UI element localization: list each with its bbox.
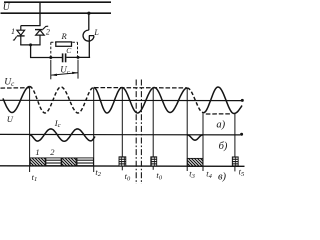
Uc level dashed left	[1, 87, 30, 89]
svg-text:Uc: Uc	[4, 78, 15, 88]
timeline axis v)	[0, 165, 245, 168]
Uc dimension extension lines	[50, 60, 52, 80]
Ic charge wave	[30, 129, 95, 141]
U wave solid right	[204, 87, 243, 114]
svg-text:U: U	[3, 3, 11, 13]
gate pulse block at first t0	[119, 157, 126, 166]
svg-text:R: R	[61, 31, 68, 41]
junction left of capacitor	[49, 56, 52, 59]
axis b)	[0, 133, 240, 136]
wire: down from pair	[30, 45, 32, 58]
marker t4	[202, 113, 204, 171]
junction right of capacitor	[77, 56, 80, 59]
svg-text:в): в)	[218, 171, 227, 182]
negative Uc level dashed	[206, 113, 232, 115]
svg-text:1: 1	[35, 147, 39, 157]
svg-text:2: 2	[46, 27, 50, 36]
wire: thyristor pair bottom bar	[20, 44, 40, 46]
Uc dashed descent after t3	[187, 88, 203, 113]
svg-text:L: L	[93, 28, 99, 37]
marker t2	[93, 88, 95, 173]
conduction block 3	[62, 158, 76, 166]
discharge conduction block t3-t4	[187, 158, 203, 166]
marker t5	[234, 114, 236, 172]
marker t3	[186, 88, 188, 171]
U wave solid left	[3, 87, 30, 113]
dashed box around R	[51, 42, 78, 56]
gate pulse block at second t0	[151, 157, 157, 166]
break line right	[140, 80, 142, 188]
marker t1	[29, 87, 31, 173]
axis a)	[0, 99, 241, 101]
wire: bottom rail to capacitor	[30, 57, 62, 59]
svg-text:2: 2	[50, 147, 55, 157]
Uc wave dashed t1-t2	[30, 87, 94, 114]
conduction block 2 (thyristor 2)	[46, 158, 61, 166]
marker t0 second	[152, 88, 154, 170]
wire: feed from line 1 to thyristor pair	[39, 2, 41, 25]
junction on line 2 for L branch	[87, 12, 90, 15]
Uc level dashed middle	[94, 87, 187, 89]
svg-text:а): а)	[216, 120, 225, 131]
conduction block 4	[77, 158, 93, 166]
marker t0 first	[121, 88, 123, 171]
resistor R	[56, 42, 72, 46]
wire: thyristor pair top bar	[21, 25, 41, 27]
Uc dimension arrow line	[51, 73, 77, 75]
svg-text:б): б)	[219, 141, 228, 152]
wire: inductor down to bottom rail	[88, 36, 90, 58]
svg-text:U: U	[7, 114, 14, 124]
wire: line 2 down to inductor	[88, 13, 90, 30]
capacitor C plates	[62, 53, 64, 62]
Ic discharge pulse	[187, 135, 202, 140]
thyristor 1 (left, cathode down)	[13, 26, 25, 45]
wire: capacitor to L branch	[66, 56, 90, 58]
U wave solid middle	[94, 88, 188, 114]
inductor L single-loop coil	[83, 30, 94, 41]
wire: supply line 1	[4, 1, 111, 3]
thyristor 2 (right, cathode up)	[35, 26, 48, 45]
junction under thyristor pair	[29, 43, 32, 46]
break line left	[135, 80, 137, 188]
wire: supply line 2	[1, 12, 112, 14]
gate pulse block at t5	[232, 157, 238, 166]
svg-text:1: 1	[11, 27, 15, 36]
conduction block 1 (thyristor 1)	[30, 158, 45, 166]
